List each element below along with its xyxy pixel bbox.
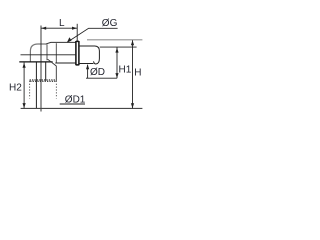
H2 dimension line [23,63,25,109]
H bottom arrow [131,103,134,108]
bottom port flange line [19,61,52,63]
flange right port [76,41,79,65]
vertical centerline [40,26,42,112]
svg-text:H1: H1 [119,65,132,76]
L left arrow [41,27,46,30]
H top arrow [131,40,134,45]
OG leader [67,28,117,42]
H1 dimension line [116,48,118,79]
svg-text:H: H [134,68,141,79]
stem right line [45,62,47,80]
H dimension line [132,40,134,108]
elbow outer gray profile (left edge + bend arc) [30,44,45,62]
top gray extension line [87,39,142,41]
svg-text:ØG: ØG [102,18,118,29]
OD leader vertical with arrow [87,65,89,79]
H1 top arrow [115,48,118,53]
internal vertical at bend/hex boundary [46,44,48,60]
H2 top arrow [23,63,26,68]
H1 bottom arrow [115,73,118,78]
H2 bottom arrow [23,103,26,108]
extension line for H1 top [100,46,137,48]
stem left line [35,62,37,108]
L dimension line [41,27,77,29]
dashed tube outline right [55,81,57,99]
leader diagonal to OD1 [48,59,57,81]
svg-text:H2: H2 [9,82,22,93]
dashed tube outline top [30,79,57,81]
OD1 underline [60,103,85,105]
body bottom edge [55,62,76,64]
horizontal centerline [21,54,76,56]
OD underline joining H1 bottom [86,77,117,79]
dashed tube outline left [29,81,31,99]
body left edge [55,43,57,63]
body chamfer and top edge [45,42,75,44]
OG leader arrow [67,37,72,42]
L right arrow [72,27,77,30]
bottom reference line [21,107,143,109]
L right extension line [76,24,78,41]
collet (release sleeve) right port [79,46,99,64]
svg-text:L: L [59,18,65,29]
svg-text:ØD: ØD [90,67,105,78]
